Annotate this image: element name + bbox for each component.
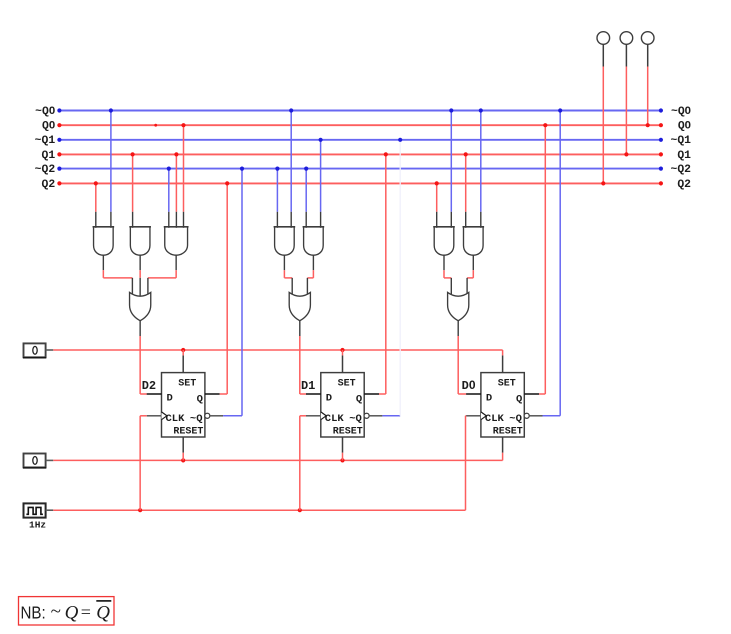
and-gate A2 output wire	[139, 255, 141, 278]
flip-flop U1 (bit 2)	[147, 355, 223, 452]
svg-text:SET: SET	[338, 379, 356, 390]
wire jog C1->OR3	[444, 277, 451, 279]
wire jog B1->OR2	[284, 277, 292, 279]
svg-text:Q0: Q0	[42, 120, 55, 133]
or-gate O3 body	[448, 292, 469, 320]
svg-text:RESET: RESET	[493, 426, 523, 437]
and-gate A3 output wire	[175, 255, 177, 278]
junction and branch RESET->U2	[340, 453, 344, 463]
or-gate O2 body	[289, 292, 310, 320]
wire O2 output -> U2 D input	[300, 321, 306, 394]
svg-text:~Q1: ~Q1	[35, 135, 56, 147]
svg-text:Q: Q	[356, 394, 362, 406]
wire Q2 bus -> gate A1 input (junction at x=95.8)	[94, 181, 98, 228]
svg-text:Q: Q	[197, 394, 203, 406]
wire U1 ~Q -> ~Q2 bus	[223, 167, 244, 416]
wire Q1 bus -> gate A2 input (junction at x=132.6)	[131, 152, 135, 228]
junction and branch SET->U1	[181, 348, 185, 356]
svg-text:D: D	[486, 393, 492, 405]
svg-text:Q0: Q0	[678, 120, 691, 133]
or-gate O1 body	[130, 292, 151, 320]
constant input SW1 (0)	[23, 343, 53, 357]
svg-text:~Q0: ~Q0	[671, 105, 691, 118]
wire jog B2->OR2	[307, 277, 313, 279]
wire ~Q0 bus -> gate C1 input (junction at x=451.3)	[449, 108, 453, 227]
wire U2 Q -> Q1 bus	[379, 152, 388, 394]
probe P2 on Q1	[620, 32, 633, 157]
wire O3 output -> U3 D input	[458, 321, 466, 394]
wire Q0 bus -> gate A3 input (junction at x=183.5)	[181, 123, 185, 228]
and-gate A1 body	[94, 227, 114, 255]
svg-text:~: ~	[51, 601, 61, 622]
svg-text:Q1: Q1	[42, 150, 56, 162]
flip-flop U3 (bit 0)	[466, 355, 542, 452]
and-gate C1 output wire	[443, 255, 445, 278]
wire ~Q0 bus -> gate B1 input (junction at x=291.2)	[289, 108, 293, 227]
node ~Q0 bus	[35, 105, 691, 118]
wire ~Q1 bus -> gate B2 input (junction at x=320.6)	[319, 138, 323, 228]
probe P1 on Q2	[597, 32, 610, 186]
wire RESET line to U3 RESET pin	[53, 453, 502, 461]
and-gate A1 output wire	[102, 255, 104, 278]
svg-text:D0: D0	[462, 378, 476, 393]
svg-text:Q2: Q2	[677, 179, 691, 191]
svg-text:~Q1: ~Q1	[670, 135, 691, 147]
svg-text:NB:: NB:	[21, 602, 46, 622]
svg-text:D1: D1	[301, 379, 315, 393]
wire ~Q2 bus -> gate B1 input (junction at x=277.4)	[275, 167, 279, 228]
wire U2 ~Q -> ~Q1 bus	[382, 138, 402, 416]
svg-text:CLK: CLK	[485, 413, 505, 425]
wire ~Q2 bus -> gate A3 input (junction at x=168.8)	[167, 167, 171, 228]
flip-flop U2 (bit 1)	[306, 355, 382, 452]
wire SET line to U3 SET pin	[53, 350, 502, 355]
node ~Q2 bus	[35, 164, 691, 176]
svg-text:SET: SET	[498, 379, 516, 390]
probe P3 on Q0	[641, 32, 654, 128]
or-gate O3 input pins	[451, 278, 467, 294]
wire U1 Q -> Q2 bus	[220, 181, 230, 394]
svg-text:Q2: Q2	[42, 179, 56, 191]
svg-text:SET: SET	[178, 379, 196, 390]
svg-text:Q: Q	[96, 602, 110, 623]
svg-text:RESET: RESET	[333, 426, 363, 437]
wire U3 ~Q -> ~Q0 bus	[543, 108, 563, 415]
node ~Q1 bus	[35, 135, 691, 147]
svg-text:~Q0: ~Q0	[35, 105, 55, 118]
wire jog C2->OR3	[467, 277, 473, 279]
svg-text:~Q2: ~Q2	[35, 164, 56, 176]
wire clock line to U3 CLK pin	[53, 416, 466, 510]
wire jog A3->OR1	[148, 277, 176, 279]
note NB: ~Q = Q-bar	[19, 597, 115, 625]
svg-text:~Q: ~Q	[190, 413, 203, 425]
node Q0 bus	[42, 120, 691, 133]
node Q1 bus	[42, 150, 692, 162]
svg-text:RESET: RESET	[173, 426, 203, 437]
and-gate B1 output wire	[283, 255, 285, 278]
svg-text:~Q: ~Q	[349, 413, 362, 425]
svg-text:D: D	[326, 393, 332, 405]
and-gate C2 output wire	[472, 255, 474, 278]
or-gate O1 input pins	[132, 278, 148, 298]
clock source CLK1 (1Hz)	[24, 503, 54, 530]
wire U3 Q -> Q0 bus	[539, 123, 547, 394]
svg-text:Q1: Q1	[677, 150, 691, 162]
wire Q1 bus -> gate C2 input (junction at x=465.7)	[464, 152, 468, 228]
and-gate B2 body	[304, 227, 324, 255]
junction dot on Q0	[154, 124, 157, 127]
svg-text:CLK: CLK	[166, 413, 186, 425]
svg-text:=: =	[81, 602, 91, 622]
wire ~Q0 bus -> gate A1 input (junction at x=110.9)	[109, 108, 113, 227]
svg-text:CLK: CLK	[325, 413, 345, 425]
svg-text:~Q: ~Q	[509, 413, 522, 425]
and-gate A3 body	[165, 227, 188, 255]
svg-text:~Q2: ~Q2	[670, 164, 691, 176]
wire ~Q0 bus -> gate C2 input (junction at x=480.8)	[479, 108, 483, 227]
svg-text:D: D	[167, 393, 173, 405]
junction and branch clock->U1 CLK	[138, 416, 147, 513]
svg-text:D2: D2	[142, 379, 156, 393]
wire ~Q2 bus -> gate B2 input (junction at x=306.2)	[304, 167, 308, 228]
wire jog A1->OR1	[103, 277, 132, 279]
and-gate B1 body	[275, 227, 295, 255]
and-gate C1 body	[434, 227, 454, 255]
junction and branch SET->U2	[340, 348, 344, 356]
junction and branch clock->U2 CLK	[298, 416, 306, 513]
or-gate O2 input pins	[292, 278, 307, 294]
constant input SW2 (0)	[23, 454, 53, 468]
junction and branch RESET->U1	[181, 453, 185, 463]
wire Q2 bus -> gate C1 input (junction at x=436.7)	[435, 181, 439, 228]
svg-text:1Hz: 1Hz	[29, 519, 46, 530]
node Q2 bus	[42, 179, 692, 191]
svg-text:Q: Q	[65, 602, 79, 623]
wire Q1 bus -> gate A3 input (junction at x=176.4)	[174, 152, 178, 228]
and-gate A2 body	[130, 227, 150, 255]
wire O1 output -> U1 D input	[140, 321, 147, 394]
and-gate C2 body	[464, 227, 484, 255]
and-gate B2 output wire	[312, 255, 314, 278]
svg-text:Q: Q	[516, 394, 522, 406]
